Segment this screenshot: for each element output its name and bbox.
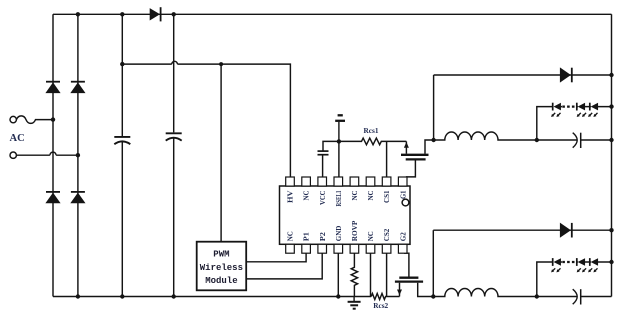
- svg-text:NC: NC: [366, 191, 375, 201]
- svg-text:P1: P1: [302, 232, 311, 241]
- PWM Wireless Module box U2: [197, 242, 247, 291]
- node bottom bus / cap leg 2: [172, 294, 176, 298]
- svg-text:Module: Module: [205, 276, 237, 286]
- svg-text:G2: G2: [398, 232, 407, 241]
- node LED1 output: [535, 138, 539, 142]
- svg-text:Wireless: Wireless: [200, 263, 243, 273]
- pin 11 P2 box: [318, 244, 327, 253]
- bridge diode top-left: [45, 82, 60, 93]
- wire RSEL1 lead: [338, 141, 340, 177]
- wire left bridge leg: [52, 14, 54, 296]
- wire GND lead: [337, 253, 339, 296]
- LED D4: [553, 103, 561, 111]
- supply bar symbol: [335, 115, 345, 141]
- wire bus cap leg 2: [173, 14, 175, 296]
- LED D9: [577, 258, 585, 266]
- svg-text:RSEL1: RSEL1: [334, 190, 343, 206]
- AC terminal L: [10, 116, 16, 122]
- svg-text:Rcs1: Rcs1: [364, 126, 379, 135]
- wire top bus: [53, 13, 612, 15]
- wire freewheel 2: [433, 229, 611, 231]
- wire HV feed with hop over cap leg 2: [122, 61, 290, 177]
- node top bus / cap leg 2: [172, 12, 176, 16]
- capacitor output 1: [537, 133, 612, 148]
- svg-text:ROVP: ROVP: [350, 220, 359, 241]
- wire VCC cap to node: [323, 141, 339, 151]
- resistor Rcs2: [371, 294, 399, 300]
- node right bus LED1: [609, 104, 613, 108]
- wire NC6 lead: [370, 253, 372, 296]
- svg-text:CS2: CS2: [382, 228, 391, 241]
- wire bottom ground bus: [53, 296, 371, 298]
- pin 4 RSEL1 box: [334, 177, 343, 186]
- wire LED dashed segment 1: [562, 105, 576, 107]
- pin 6 NC box: [366, 177, 375, 186]
- wire bus cap leg 1: [121, 14, 123, 296]
- series diode top bus: [150, 7, 161, 21]
- wire freewheel 1: [434, 74, 612, 76]
- svg-text:NC: NC: [302, 191, 311, 201]
- svg-text:GND: GND: [334, 225, 343, 241]
- op-amp U1 IC body: [280, 186, 411, 244]
- node VCC RSEL1 junction: [337, 139, 341, 143]
- svg-text:NC: NC: [366, 231, 375, 241]
- resistor Rcs1: [339, 138, 407, 145]
- LED arrows string 1: [551, 113, 597, 117]
- wire Q2 drain riser: [432, 230, 434, 296]
- node Q1 drain: [431, 138, 435, 142]
- pin 10 P1 box: [302, 244, 311, 253]
- capacitor VCC bypass: [318, 151, 329, 155]
- node top bus / right leg: [76, 12, 80, 16]
- wire Q1 drain riser: [433, 75, 435, 140]
- wire CS1 lead: [386, 141, 388, 177]
- capacitor bulk 1: [114, 137, 130, 144]
- pin 5 NC box: [350, 177, 359, 186]
- svg-text:G1: G1: [398, 190, 407, 199]
- wire right bridge leg: [77, 14, 79, 296]
- svg-text:CS1: CS1: [382, 190, 391, 203]
- node right bus freewheel 1: [609, 73, 613, 77]
- node Q2 drain: [431, 294, 435, 298]
- bridge diode bottom-left: [45, 192, 60, 203]
- transistor Q1 MOSFET: [401, 140, 434, 177]
- wire AC neutral with hop over left leg: [16, 152, 78, 155]
- wire PWM module feed: [220, 64, 222, 242]
- node bottom bus / right leg: [76, 294, 80, 298]
- wire CS2 lead: [386, 253, 388, 296]
- wire P2 link: [246, 253, 322, 279]
- node right bus cap1: [609, 138, 613, 142]
- ground: [348, 297, 361, 309]
- svg-text:HV: HV: [286, 190, 295, 203]
- wire LED branch 2: [537, 262, 612, 297]
- pin 14 NC box: [366, 244, 375, 253]
- svg-text:Rcs2: Rcs2: [373, 301, 388, 310]
- wire LED dashed segment 2: [562, 261, 576, 263]
- pin 12 GND box: [334, 244, 343, 253]
- svg-text:PWM: PWM: [213, 250, 229, 260]
- svg-text:P2: P2: [318, 232, 327, 241]
- node HV feed tap: [120, 62, 124, 66]
- LED D5: [577, 103, 585, 111]
- AC terminal N: [10, 152, 16, 158]
- diode freewheel 1: [560, 67, 572, 82]
- pin 8 G1 box: [398, 177, 407, 186]
- transistor Q2 MOSFET: [395, 253, 433, 296]
- wire LED branch 1: [537, 107, 612, 140]
- node LED2 output: [535, 294, 539, 298]
- wire VCC branch lower: [322, 155, 324, 177]
- LED D10: [590, 258, 598, 266]
- wire P1 link: [246, 253, 306, 262]
- inductor L1: [434, 132, 537, 140]
- pin G1 circle marker: [402, 199, 409, 206]
- node AC neutral / right leg: [76, 153, 80, 157]
- pin 9 NC box: [286, 244, 295, 253]
- pin 2 NC box: [302, 177, 311, 186]
- LED arrows string 2: [551, 268, 597, 272]
- node bottom bus / GND pin: [336, 294, 340, 298]
- wire right bus: [611, 14, 613, 296]
- bridge diode bottom-right: [70, 192, 85, 203]
- bridge diode top-right: [70, 82, 85, 93]
- pin 7 CS1 box: [382, 177, 391, 186]
- pin 15 CS2 box: [382, 244, 391, 253]
- svg-text:AC: AC: [10, 133, 25, 144]
- node bottom bus / cap leg 1: [120, 294, 124, 298]
- svg-text:NC: NC: [350, 191, 359, 201]
- LED D6: [590, 103, 598, 111]
- pin 3 VCC box: [318, 177, 327, 186]
- node right bus freewheel 2: [609, 228, 613, 232]
- svg-text:VCC: VCC: [318, 191, 327, 206]
- node right bus LED2: [609, 260, 613, 264]
- node top bus / cap leg 1: [120, 12, 124, 16]
- node PWM feed tap: [219, 62, 223, 66]
- svg-text:NC: NC: [286, 231, 295, 241]
- LED D8: [553, 258, 561, 266]
- diode freewheel 2: [560, 223, 572, 238]
- resistor ROVP: [351, 253, 357, 296]
- capacitor output 2: [537, 289, 612, 304]
- pin 1 HV box: [286, 177, 295, 186]
- pin 13 ROVP box: [350, 244, 359, 253]
- fuse and wire to bridge: [16, 116, 53, 124]
- node AC live / left leg: [51, 117, 55, 121]
- capacitor bulk 2: [166, 133, 182, 140]
- inductor L2: [433, 288, 537, 296]
- pin 16 G2 box: [398, 244, 407, 253]
